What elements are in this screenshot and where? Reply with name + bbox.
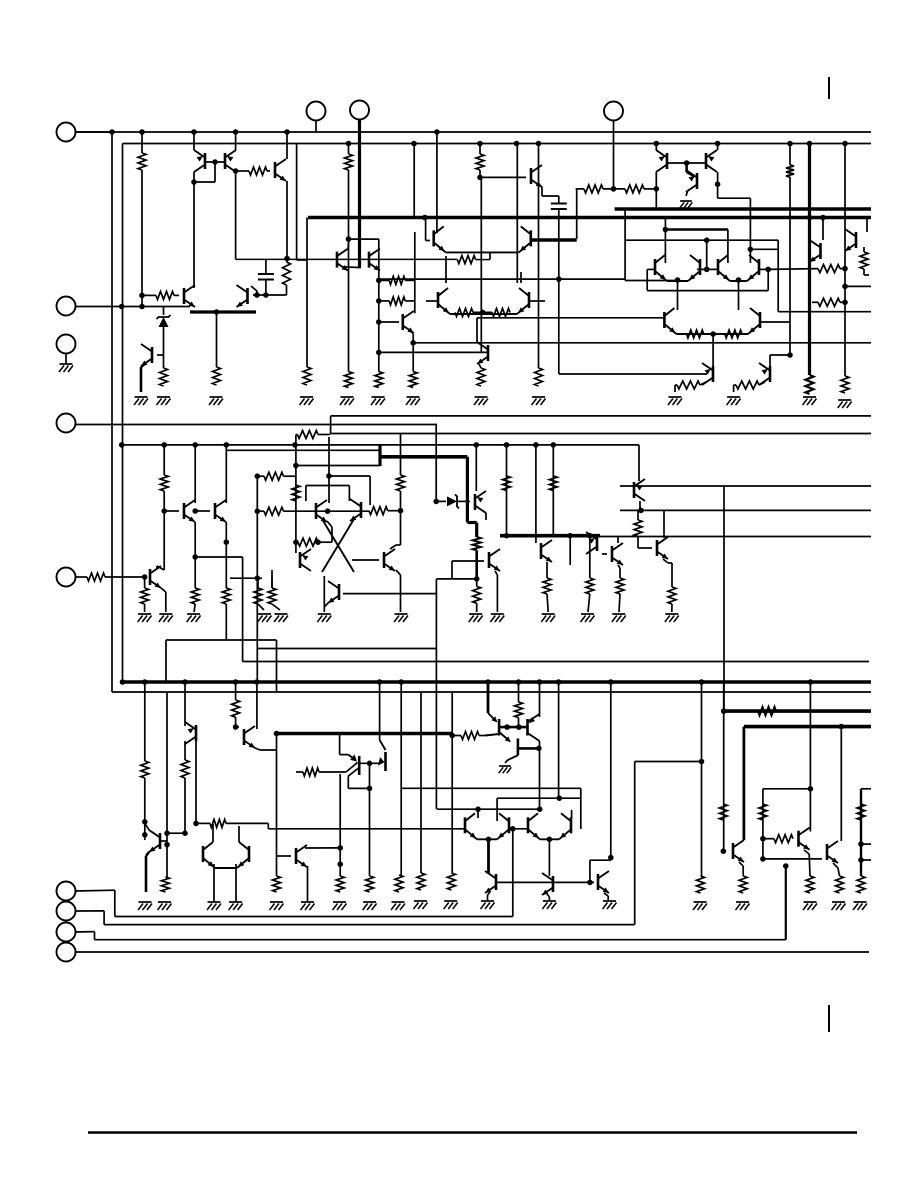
junction J96	[699, 679, 705, 685]
junction J19	[139, 304, 145, 310]
wire W63	[445, 256, 447, 283]
wire W83	[750, 248, 778, 250]
wire W209	[637, 536, 639, 548]
bar Q39	[526, 719, 529, 736]
wire W285	[589, 860, 591, 882]
wire W58	[576, 189, 578, 239]
zener diode D1	[159, 317, 169, 327]
junction J56	[192, 442, 198, 448]
wire W95	[812, 301, 818, 303]
wire W161	[348, 486, 350, 502]
junction J64	[161, 508, 167, 514]
wire W179	[458, 500, 470, 502]
thick wire y536	[500, 534, 600, 538]
resistor R12	[457, 256, 475, 264]
resistor R6	[303, 367, 311, 385]
vertical from line2	[634, 762, 636, 925]
junction J77	[326, 473, 332, 479]
wire W243	[488, 713, 496, 721]
wire W252	[518, 747, 539, 750]
wire y465 to thick stub	[296, 465, 380, 467]
resistor R45	[268, 588, 276, 604]
junction J45	[704, 267, 710, 273]
junction J105	[274, 731, 280, 737]
junction J69	[254, 473, 260, 479]
ground GND7	[372, 396, 385, 398]
junction J68	[142, 574, 148, 580]
wire W247	[539, 682, 541, 717]
wire W129	[194, 445, 196, 503]
wire y882	[497, 881, 594, 883]
wire W50	[479, 170, 481, 177]
wire W221	[160, 840, 167, 842]
transistor Q49	[597, 874, 600, 890]
wire y279	[379, 278, 625, 280]
ground GND20	[258, 613, 271, 615]
second rail	[123, 143, 872, 145]
wire W74	[687, 162, 706, 164]
wire W13	[267, 170, 270, 172]
resistor R3	[156, 291, 174, 299]
wire W238	[236, 726, 239, 728]
junction J31	[376, 319, 382, 325]
wire y594	[343, 593, 436, 595]
resistor R30	[725, 330, 742, 338]
wire W260	[340, 754, 349, 756]
wire W16	[286, 259, 288, 262]
junction J63	[119, 442, 125, 448]
wire W115	[675, 384, 677, 386]
wire W258	[400, 682, 402, 875]
wire W27	[122, 306, 190, 308]
wire W108	[759, 268, 768, 270]
transistor Q50	[732, 843, 735, 859]
resistor R24	[806, 375, 814, 394]
wire W216	[144, 682, 146, 761]
arrow A	[505, 736, 511, 742]
junction J94	[556, 679, 562, 685]
junction J99	[142, 832, 148, 838]
wire W109	[768, 268, 818, 271]
wire W94	[840, 268, 845, 270]
junction J40	[684, 160, 690, 166]
double diag 1	[346, 763, 358, 773]
wire W15	[286, 181, 288, 259]
wire W249	[452, 735, 461, 737]
junction J98	[142, 819, 148, 825]
thick base bus C2	[499, 726, 527, 729]
resistor R16	[476, 154, 484, 170]
wire W304	[861, 788, 871, 790]
ground GND42	[543, 900, 556, 902]
thin line under bus	[112, 691, 871, 693]
wire W22	[297, 259, 307, 261]
wire W231	[267, 823, 269, 828]
junction J23	[284, 256, 290, 262]
wire W125	[400, 491, 402, 545]
wire W47	[425, 218, 427, 241]
wire W200	[619, 568, 621, 578]
wire W212	[668, 562, 672, 564]
wire W99	[845, 285, 871, 287]
wire W201	[619, 594, 620, 612]
jog at x330	[330, 416, 332, 435]
wire W208	[637, 510, 639, 520]
wire W76	[687, 172, 694, 176]
resistor R17	[535, 368, 543, 386]
junction J127	[808, 786, 814, 792]
junction J60	[504, 442, 510, 448]
ground GND21	[275, 613, 288, 615]
transistor Q17	[855, 232, 858, 248]
wire W39	[379, 279, 389, 281]
wire W31	[140, 367, 143, 392]
wire W180	[475, 445, 477, 491]
wire W186	[476, 603, 478, 612]
junction J85	[142, 679, 148, 685]
resistor R38	[141, 588, 149, 604]
resistor R68	[336, 876, 344, 892]
resistor R71	[739, 876, 747, 893]
wire W72	[717, 144, 719, 151]
wire W38	[489, 252, 491, 260]
wire W131	[225, 445, 227, 503]
resistor R51	[616, 578, 624, 594]
wire W158	[327, 521, 332, 527]
ground GND10	[475, 396, 488, 398]
wire W43	[379, 321, 399, 323]
transistor Q19	[769, 366, 772, 382]
wire W270	[305, 847, 340, 849]
center column x481	[480, 177, 482, 312]
thick wire y727	[744, 725, 871, 729]
thick bus A	[308, 216, 871, 220]
wire W203	[589, 536, 591, 556]
wire W237	[235, 717, 237, 729]
resistor R15	[409, 372, 417, 388]
junction J86	[182, 679, 188, 685]
wire W268	[369, 763, 371, 876]
wire W126	[163, 445, 165, 475]
wire W233	[238, 826, 240, 842]
wire W257	[420, 692, 422, 873]
junction J76	[315, 539, 321, 545]
wire W65	[473, 311, 492, 313]
wire W6	[193, 132, 195, 150]
junction J73	[398, 508, 404, 514]
wire W156	[318, 541, 332, 543]
resistor R74	[806, 876, 814, 893]
Q39 collector down to PB	[539, 741, 541, 809]
transistor Q27	[474, 494, 477, 510]
wire W213	[671, 563, 673, 587]
resistor R25	[818, 265, 840, 273]
wire W190	[495, 571, 497, 575]
wire W289	[604, 893, 608, 896]
wire W59	[576, 188, 584, 190]
middle rail y445	[122, 444, 639, 446]
wire W220	[145, 823, 149, 830]
transistor Q4	[151, 347, 154, 363]
ground GND39	[333, 901, 346, 903]
ground GND35	[444, 900, 457, 902]
transistor Q22	[149, 569, 152, 585]
junction J72	[325, 508, 331, 514]
wire W128	[164, 510, 179, 512]
resistor R21	[492, 308, 510, 316]
wire W290	[607, 896, 609, 900]
vertical x724	[723, 486, 725, 711]
junction J103	[193, 821, 199, 827]
transistor pair Q56 Q57	[654, 259, 657, 275]
junction J28	[346, 236, 352, 242]
thick wire y732	[277, 732, 453, 736]
junction J49	[842, 284, 848, 290]
line2 y924	[104, 924, 635, 926]
transistor Q30	[596, 535, 599, 551]
wire W235	[235, 864, 237, 902]
junction J107	[516, 724, 522, 730]
wire W54	[541, 187, 543, 196]
wire W305	[861, 843, 871, 845]
wire W234	[213, 864, 215, 902]
wire from pin 5	[76, 576, 88, 578]
wire W51	[480, 176, 526, 178]
wire W107	[767, 269, 769, 290]
wire y798	[497, 797, 581, 799]
junction J52	[736, 277, 742, 283]
wire W103	[863, 269, 865, 275]
arrow emitter Q41	[378, 757, 385, 766]
ground GND23	[469, 613, 482, 615]
wire W165	[230, 577, 262, 579]
transistor Q42	[295, 848, 298, 864]
ground GND37	[392, 901, 405, 903]
junction J91	[485, 679, 491, 685]
junction J17	[807, 215, 813, 221]
wire W102	[863, 247, 865, 252]
junction J24	[254, 292, 260, 298]
wire y788	[401, 787, 581, 789]
junction J33	[410, 340, 416, 346]
wire W36	[343, 266, 359, 269]
junction J41	[715, 181, 721, 187]
wire W124	[400, 434, 402, 476]
wire W286	[590, 859, 611, 861]
junction J104	[233, 724, 239, 730]
wire W219	[145, 856, 148, 892]
pin7 wire	[76, 910, 105, 912]
wire W28	[163, 307, 165, 316]
wire W3	[141, 170, 143, 307]
junction J14	[807, 141, 813, 147]
junction J20	[212, 159, 218, 165]
ground GND32	[229, 901, 242, 903]
ground GND40	[301, 901, 314, 903]
wire W271	[307, 866, 309, 902]
junction J80	[504, 533, 510, 539]
junction J37	[611, 186, 617, 192]
wire W52	[538, 144, 540, 169]
wire W223	[167, 832, 185, 834]
junction J131	[783, 863, 789, 869]
ground GND15	[727, 396, 740, 398]
wire W265	[348, 787, 369, 789]
wire W251	[499, 732, 509, 741]
junction J30	[376, 298, 382, 304]
wire W133	[195, 556, 242, 558]
wire W123	[295, 435, 297, 445]
wire W100	[778, 311, 871, 313]
ground GND9	[532, 396, 545, 398]
resistor R46	[473, 537, 481, 550]
wire W308	[114, 890, 116, 916]
transistor Q15	[696, 173, 699, 189]
transistor Q53	[336, 252, 339, 268]
junction J128	[858, 841, 864, 847]
terminal pad P3	[57, 335, 76, 354]
junction J101	[164, 842, 170, 848]
junction J61	[533, 442, 539, 448]
column x415	[414, 232, 416, 313]
resistor R22	[477, 368, 485, 386]
wire W218	[146, 852, 149, 856]
wire W64	[520, 272, 522, 283]
arrow A	[491, 716, 497, 722]
wire W26	[256, 291, 258, 295]
transistor Q16	[819, 243, 822, 259]
ground GND13	[838, 399, 851, 401]
wire W12	[236, 170, 249, 172]
wire W45	[412, 334, 414, 372]
wire W242	[276, 734, 278, 877]
junction J130	[699, 759, 705, 765]
wire W187	[436, 578, 476, 580]
junction J54	[710, 331, 716, 337]
resistor R34	[397, 475, 405, 491]
transistor Q1	[204, 153, 207, 169]
junction J27	[119, 304, 125, 310]
wire W279	[509, 828, 528, 830]
wire W255	[505, 760, 508, 763]
wire W34	[348, 170, 350, 372]
junction J29	[376, 278, 382, 284]
wire from pin 4	[76, 424, 437, 426]
resistor R9	[345, 154, 353, 170]
junction J58	[292, 442, 298, 448]
ground GND19	[318, 613, 331, 615]
wire W292	[739, 862, 743, 866]
resistor R63	[447, 873, 455, 890]
junction J116	[486, 837, 492, 843]
stem of top pad 3	[613, 121, 615, 189]
wire W167	[271, 578, 273, 588]
wire W262	[296, 771, 303, 773]
ground GND33	[270, 901, 283, 903]
junction J47	[820, 215, 826, 221]
wire W145	[156, 566, 158, 569]
wire W173	[390, 545, 396, 549]
junction J89	[377, 679, 383, 685]
junction J71	[254, 575, 260, 581]
wire W253	[528, 733, 540, 741]
rail y450	[226, 449, 380, 451]
wire W248	[485, 734, 499, 736]
terminal pad P2	[57, 297, 76, 316]
thick stem of top pad 2	[358, 120, 361, 269]
wire W162	[329, 475, 370, 477]
junction J66	[192, 554, 198, 560]
top-right tick mark	[828, 77, 830, 99]
transistor Q37	[243, 729, 246, 745]
wire W295	[763, 788, 811, 790]
resistor R64	[417, 873, 425, 890]
wire W96	[844, 144, 846, 377]
wire W11	[235, 172, 237, 259]
ground GND25	[542, 613, 555, 615]
wire W302	[838, 868, 840, 876]
wire W84	[655, 189, 657, 209]
resistor R44	[254, 588, 262, 604]
transistor Q3	[274, 162, 277, 178]
wire W81	[718, 197, 751, 199]
junction J125	[760, 836, 766, 842]
transistor Q6	[246, 288, 249, 304]
wire W53	[538, 168, 540, 368]
wire y829	[268, 828, 464, 830]
wire W25	[251, 286, 257, 291]
thick wire y239	[531, 238, 577, 242]
wire W232	[212, 824, 214, 842]
junction J122	[721, 708, 727, 714]
transistor pair Q58 Q59	[717, 259, 720, 275]
wire W283	[547, 894, 549, 897]
junction J16	[422, 215, 428, 221]
resistor R37	[222, 588, 230, 604]
wire W30	[141, 363, 146, 367]
cross wire 1	[322, 519, 354, 572]
wire W170	[272, 604, 280, 610]
resistor R8	[160, 368, 168, 386]
junction J18	[139, 293, 145, 299]
long vertical from middle to bottom	[435, 579, 437, 809]
junction J114	[557, 795, 563, 801]
long base wire y260	[236, 258, 458, 260]
separator rail y416	[331, 415, 871, 417]
ground GND1	[60, 363, 73, 365]
wire W130	[195, 510, 210, 512]
transistor Q32	[656, 540, 659, 556]
wire W174	[396, 544, 401, 546]
wire W55	[542, 195, 559, 197]
wire W14	[286, 132, 288, 159]
wire W168	[258, 604, 264, 610]
wire W229	[196, 822, 210, 824]
junction J100	[164, 830, 170, 836]
wire W122	[296, 434, 298, 436]
wire W177	[435, 424, 437, 502]
wire W210	[638, 547, 652, 549]
wire W62	[516, 144, 518, 284]
wire W266	[361, 762, 382, 764]
bottom-right tick mark	[828, 1005, 830, 1032]
resistor R18	[584, 185, 603, 193]
junction J87	[233, 679, 239, 685]
cross wire 2	[322, 519, 354, 572]
double diag 2	[348, 768, 359, 777]
wire W204	[589, 556, 591, 578]
ground GND14	[669, 396, 682, 398]
